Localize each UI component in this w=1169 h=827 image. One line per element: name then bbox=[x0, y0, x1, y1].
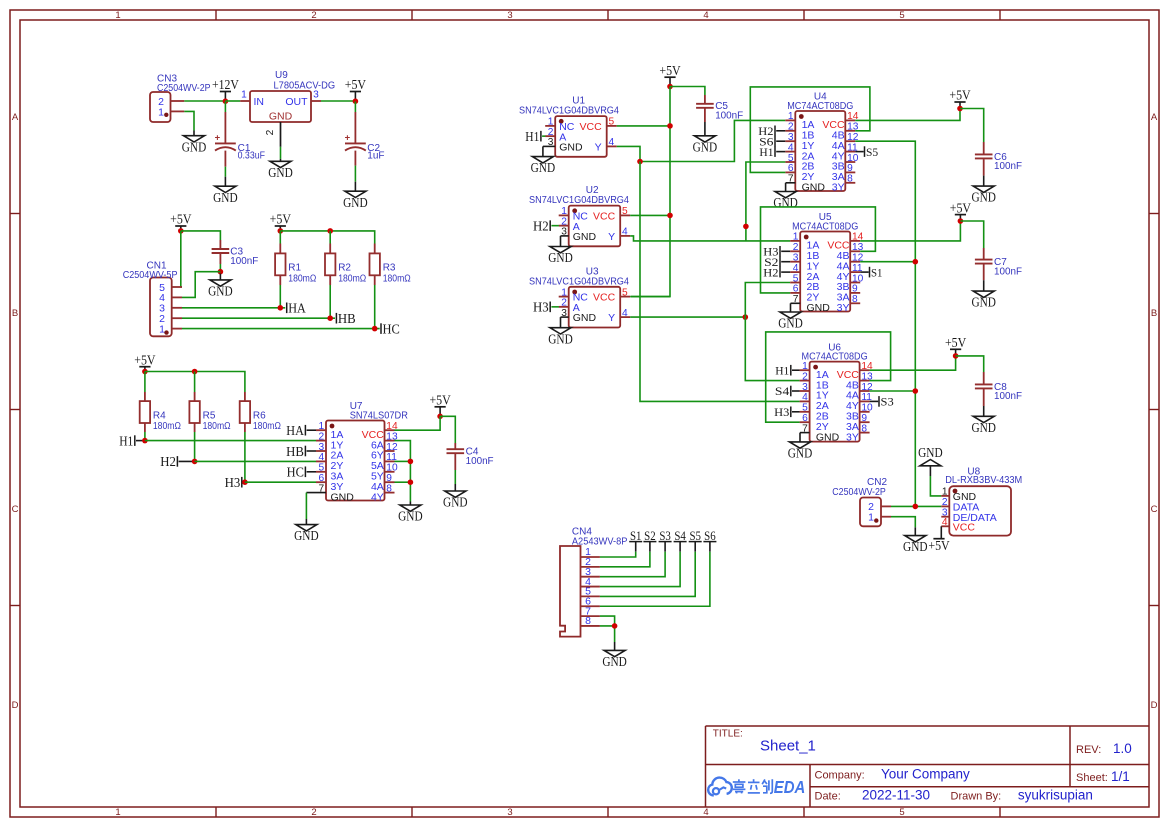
svg-text:10: 10 bbox=[861, 403, 873, 414]
wire C2 to ground bbox=[354, 166, 356, 182]
svg-text:+5V: +5V bbox=[949, 88, 971, 103]
svg-text:GND: GND bbox=[559, 142, 583, 154]
wire U2 VCC bbox=[630, 214, 670, 216]
S1 lead (U5) bbox=[860, 271, 869, 273]
svg-text:1: 1 bbox=[115, 10, 120, 21]
svg-text:180mΩ: 180mΩ bbox=[253, 421, 281, 432]
junction CN4 ground bbox=[612, 623, 618, 629]
ground (U7 outputs) bbox=[398, 502, 423, 524]
svg-text:S1: S1 bbox=[871, 265, 883, 279]
title block bbox=[706, 726, 1150, 807]
U2 pin3 to ground bbox=[561, 235, 569, 237]
svg-text:1uF: 1uF bbox=[367, 151, 384, 162]
svg-text:GND: GND bbox=[182, 139, 207, 154]
power +5V (U6/C8) bbox=[945, 335, 967, 356]
ground (U2) bbox=[548, 247, 573, 266]
svg-text:A: A bbox=[1151, 112, 1158, 123]
wire U2.Y to U5.1 bbox=[630, 236, 790, 241]
svg-text:5: 5 bbox=[788, 153, 794, 164]
wire C4 to ground bbox=[454, 470, 456, 484]
svg-text:GND: GND bbox=[548, 331, 573, 346]
svg-text:GND: GND bbox=[573, 312, 597, 324]
wire +12V to C1 bbox=[224, 102, 226, 113]
svg-text:EDA: EDA bbox=[774, 777, 806, 797]
svg-text:TITLE:: TITLE: bbox=[713, 729, 743, 740]
svg-text:GND: GND bbox=[208, 284, 233, 299]
wire CN3 pin1 to ground bbox=[184, 111, 194, 130]
wire +5V to C4 bbox=[440, 416, 455, 443]
svg-text:R6: R6 bbox=[253, 410, 266, 421]
junction +5V U7 node bbox=[437, 414, 443, 420]
power +5V (U8) bbox=[928, 538, 950, 553]
svg-text:S5: S5 bbox=[866, 145, 878, 159]
svg-text:1: 1 bbox=[793, 232, 799, 243]
junction +5V C8 node bbox=[953, 353, 959, 359]
wire CN4.1 to S1 bbox=[600, 552, 636, 557]
svg-text:1/1: 1/1 bbox=[1111, 769, 1130, 784]
junction +12V node bbox=[223, 98, 229, 104]
power +5V (R1-R3 rail) bbox=[270, 212, 292, 231]
svg-text:GND: GND bbox=[269, 111, 293, 123]
power +5V (U7/C4) bbox=[429, 393, 451, 417]
svg-text:H1: H1 bbox=[119, 433, 133, 448]
svg-text:H2: H2 bbox=[763, 265, 778, 279]
svg-text:100nF: 100nF bbox=[466, 456, 494, 467]
node S1 (CN4) bbox=[629, 528, 642, 552]
svg-text:HA: HA bbox=[288, 301, 306, 316]
U4 pin7 to ground bbox=[786, 182, 796, 184]
wire R5 to H2 bbox=[194, 432, 196, 461]
svg-text:9: 9 bbox=[847, 163, 853, 174]
junction rail at R2 bbox=[327, 228, 333, 234]
capacitor C1 bbox=[215, 132, 265, 161]
wire U9 GND pin bbox=[280, 147, 282, 159]
svg-text:2: 2 bbox=[802, 371, 808, 382]
wire U1.Y down to U6 pin4 bbox=[640, 162, 800, 402]
svg-text:GND: GND bbox=[971, 190, 996, 205]
wire U7 pin9 bbox=[395, 481, 411, 483]
svg-text:MC74ACT08DG: MC74ACT08DG bbox=[802, 352, 868, 363]
node H2 bbox=[160, 454, 177, 469]
wire CN2 pin2 to U8 DATA bbox=[891, 505, 941, 507]
resistor R1 bbox=[275, 244, 317, 286]
svg-text:GND: GND bbox=[573, 231, 597, 243]
power +5V (CN1) bbox=[170, 212, 192, 231]
svg-text:HC: HC bbox=[287, 465, 304, 480]
node HC (U7) bbox=[287, 465, 306, 480]
svg-text:R2: R2 bbox=[338, 263, 351, 274]
wire CN4.2 to S2 bbox=[600, 552, 650, 567]
svg-text:HC: HC bbox=[383, 321, 400, 336]
svg-text:H3: H3 bbox=[533, 300, 549, 315]
svg-text:5: 5 bbox=[802, 403, 808, 414]
H2 lead bbox=[179, 460, 195, 462]
resistor R4 bbox=[140, 392, 182, 432]
svg-text:GND: GND bbox=[268, 165, 293, 180]
H1 lead bbox=[136, 440, 145, 442]
svg-text:10: 10 bbox=[386, 463, 398, 474]
IC U2 SN74LVC1G04DBVRG4 bbox=[529, 185, 630, 246]
svg-text:8: 8 bbox=[852, 294, 858, 305]
junction rail at R5 bbox=[192, 369, 198, 375]
svg-text:+5V: +5V bbox=[429, 393, 451, 408]
svg-text:1: 1 bbox=[158, 106, 164, 118]
wire CN4 pin8 bbox=[600, 626, 615, 642]
svg-text:3: 3 bbox=[319, 442, 325, 453]
svg-text:SN74LS07DR: SN74LS07DR bbox=[350, 411, 408, 422]
svg-text:4Y: 4Y bbox=[371, 491, 384, 503]
wire +5V to C3 bbox=[181, 231, 221, 240]
node HA (U7) bbox=[286, 423, 305, 438]
svg-text:+5V: +5V bbox=[270, 212, 292, 227]
svg-text:GND: GND bbox=[213, 190, 238, 205]
svg-text:5: 5 bbox=[622, 287, 628, 298]
svg-text:C: C bbox=[12, 504, 19, 515]
node S4 (U6) bbox=[775, 384, 791, 398]
svg-text:C2504WV-2P: C2504WV-2P bbox=[832, 487, 886, 498]
wire H2 lead (U2) bbox=[551, 225, 559, 227]
junction U7 pin9 bbox=[408, 479, 414, 485]
H3 lead bbox=[243, 481, 245, 483]
svg-text:GND: GND bbox=[773, 195, 798, 210]
H1 lead (U6) bbox=[792, 369, 800, 371]
junction U2 VCC bbox=[667, 213, 673, 219]
svg-text:A: A bbox=[12, 112, 19, 123]
svg-text:R3: R3 bbox=[383, 263, 396, 274]
node H2 (U4) bbox=[758, 124, 775, 138]
svg-text:2: 2 bbox=[311, 807, 316, 818]
resistor R2 bbox=[325, 244, 367, 286]
wire CN1 pin2 to HB bbox=[182, 317, 335, 319]
junction U3.Y bbox=[743, 314, 749, 320]
ground (U3) bbox=[548, 328, 573, 347]
wire R1 to HA bbox=[279, 285, 281, 308]
junction +5V C6 node bbox=[957, 106, 963, 112]
S5 lead (U4) bbox=[855, 151, 863, 153]
wire DATA vertical bbox=[855, 141, 915, 506]
node H2 (U5) bbox=[763, 265, 780, 279]
svg-text:100nF: 100nF bbox=[994, 266, 1022, 277]
svg-text:3Y: 3Y bbox=[846, 431, 859, 443]
node S3 (U6) bbox=[879, 395, 894, 409]
wire H3 lead (U3) bbox=[551, 306, 559, 308]
wire +5V rail to R3 bbox=[280, 231, 374, 244]
svg-text:DL-RXB3BV-433M: DL-RXB3BV-433M bbox=[945, 475, 1022, 486]
node H1 (U1) bbox=[525, 129, 541, 144]
wire CN4.4 to S4 bbox=[600, 552, 680, 587]
svg-text:A2543WV-8P: A2543WV-8P bbox=[572, 536, 628, 547]
node S1 (U5) bbox=[870, 265, 883, 279]
junction HC bbox=[372, 326, 378, 332]
ground (C8) bbox=[971, 406, 996, 435]
svg-text:2: 2 bbox=[265, 129, 276, 135]
ground (U8 pin1, points up) bbox=[918, 445, 943, 466]
node H3 (U5) bbox=[763, 245, 780, 259]
svg-text:3: 3 bbox=[793, 253, 799, 264]
H1 lead (U4) bbox=[776, 151, 785, 153]
svg-text:GND: GND bbox=[816, 431, 840, 443]
wire CN4 pin7 bbox=[600, 616, 615, 626]
svg-text:10: 10 bbox=[852, 273, 864, 284]
svg-text:Sheet_1: Sheet_1 bbox=[760, 738, 816, 755]
svg-text:3Y: 3Y bbox=[837, 302, 850, 314]
svg-text:VCC: VCC bbox=[580, 121, 603, 133]
svg-text:4: 4 bbox=[319, 452, 325, 463]
wire U1 VCC bbox=[617, 125, 670, 127]
svg-text:1: 1 bbox=[115, 807, 120, 818]
svg-text:R5: R5 bbox=[203, 410, 216, 421]
ground (CN2) bbox=[903, 527, 928, 554]
svg-text:4: 4 bbox=[942, 517, 948, 528]
svg-text:GND: GND bbox=[788, 446, 813, 461]
wire +5V to C2 bbox=[354, 102, 356, 113]
svg-text:Y: Y bbox=[608, 312, 615, 324]
ground (U9) bbox=[268, 159, 293, 180]
node S2 (CN4) bbox=[643, 528, 656, 552]
svg-text:U9: U9 bbox=[275, 70, 288, 81]
ground (C3) bbox=[208, 274, 233, 299]
wire +5V to C5 bbox=[670, 87, 705, 96]
node H2 (U2) bbox=[533, 218, 550, 233]
svg-text:H1: H1 bbox=[525, 129, 539, 144]
wire U6 2Y to 4B loop bbox=[766, 332, 891, 422]
svg-text:SN74LVC1G04DBVRG4: SN74LVC1G04DBVRG4 bbox=[529, 195, 629, 206]
svg-text:GND: GND bbox=[693, 139, 718, 154]
ground (C4) bbox=[443, 484, 468, 510]
wire +5V to C6 bbox=[960, 109, 984, 143]
wire U5 2Y to 4B loop bbox=[761, 207, 876, 293]
node HB (CN1) bbox=[336, 311, 355, 326]
svg-text:5: 5 bbox=[793, 273, 799, 284]
U7 pin7 to ground bbox=[306, 492, 326, 494]
svg-text:2: 2 bbox=[788, 122, 794, 133]
wire U7 pins 13-11-9 bbox=[395, 441, 411, 502]
svg-text:9: 9 bbox=[386, 473, 392, 484]
power +12V bbox=[212, 77, 239, 101]
svg-text:180mΩ: 180mΩ bbox=[338, 273, 366, 284]
wire H1 lead (U1) bbox=[542, 135, 545, 137]
ground (C1) bbox=[213, 177, 238, 205]
svg-text:Your Company: Your Company bbox=[881, 766, 970, 781]
power +5V (U9 out) bbox=[345, 77, 367, 101]
svg-text:1: 1 bbox=[802, 361, 808, 372]
svg-text:C2504WV-2P: C2504WV-2P bbox=[157, 83, 211, 94]
svg-text:VCC: VCC bbox=[953, 521, 976, 533]
svg-text:5: 5 bbox=[899, 10, 904, 21]
svg-text:6: 6 bbox=[788, 163, 794, 174]
junction +5V C7 node bbox=[958, 218, 964, 224]
svg-text:R1: R1 bbox=[288, 263, 301, 274]
node H3 bbox=[225, 475, 242, 490]
wire +5V rail to R6 bbox=[145, 372, 245, 393]
capacitor C8 bbox=[975, 382, 1022, 402]
svg-text:3: 3 bbox=[802, 382, 808, 393]
H2 lead (U4) bbox=[776, 130, 785, 132]
junction H3 bbox=[242, 479, 248, 485]
svg-text:12: 12 bbox=[386, 442, 398, 453]
svg-text:100nF: 100nF bbox=[994, 161, 1022, 172]
ground (U7) bbox=[294, 519, 319, 543]
junction +5V rail at R1 bbox=[278, 228, 284, 234]
connector CN3 C2504WV-2P bbox=[150, 74, 211, 123]
svg-text:GND: GND bbox=[398, 509, 423, 524]
junction U1 VCC bbox=[667, 123, 673, 129]
wire CN4.6 to S6 bbox=[600, 552, 710, 607]
node S3 (CN4) bbox=[659, 528, 672, 552]
capacitor C7 bbox=[975, 257, 1022, 277]
svg-text:3: 3 bbox=[507, 10, 512, 21]
svg-text:+: + bbox=[345, 132, 351, 143]
wire U8 pin4 to +5V bbox=[940, 526, 942, 538]
svg-text:180mΩ: 180mΩ bbox=[203, 421, 231, 432]
HB lead bbox=[307, 450, 316, 452]
svg-text:180mΩ: 180mΩ bbox=[383, 273, 411, 284]
U3 pin3 to ground bbox=[561, 316, 569, 318]
svg-text:GND: GND bbox=[531, 160, 556, 175]
IC U1 SN74LVC1G04DBVRG4 bbox=[519, 96, 619, 157]
wire U5.4A to DATA bbox=[860, 261, 915, 263]
svg-text:1: 1 bbox=[159, 323, 165, 335]
wire rail to R2 bbox=[329, 231, 331, 244]
wire R4 to H1 bbox=[144, 432, 146, 441]
IC U8 DL-RXB3BV-433M bbox=[941, 467, 1022, 536]
IC U6 MC74ACT08DG bbox=[800, 342, 873, 443]
wire CN1 pin1 to HC bbox=[182, 328, 380, 330]
svg-text:3Y: 3Y bbox=[832, 182, 845, 194]
svg-text:0.33uF: 0.33uF bbox=[238, 151, 265, 162]
svg-text:OUT: OUT bbox=[285, 96, 308, 108]
svg-text:GND: GND bbox=[331, 491, 355, 503]
junction H2 bbox=[192, 459, 198, 465]
resistor R6 bbox=[240, 392, 282, 432]
wire CN4.3 to S3 bbox=[600, 552, 665, 577]
svg-text:HB: HB bbox=[286, 444, 304, 459]
svg-text:Company:: Company: bbox=[815, 769, 865, 781]
svg-text:C2504WV-5P: C2504WV-5P bbox=[123, 270, 178, 281]
junction DATA at U6 bbox=[913, 388, 919, 394]
svg-text:1: 1 bbox=[868, 512, 874, 524]
svg-text:Drawn By:: Drawn By: bbox=[951, 791, 1002, 803]
svg-text:1.0: 1.0 bbox=[1113, 741, 1132, 756]
wire rail to R4 bbox=[144, 372, 146, 393]
svg-text:HB: HB bbox=[338, 311, 356, 326]
HC lead bbox=[307, 471, 316, 473]
svg-text:5: 5 bbox=[609, 117, 615, 128]
svg-text:180mΩ: 180mΩ bbox=[153, 421, 181, 432]
svg-text:GND: GND bbox=[971, 420, 996, 435]
svg-text:8: 8 bbox=[386, 483, 392, 494]
node S5 (CN4) bbox=[689, 528, 702, 552]
H3 lead (U6) bbox=[792, 411, 800, 413]
svg-text:6: 6 bbox=[319, 473, 325, 484]
svg-text:9: 9 bbox=[861, 413, 867, 424]
junction U7 pin11 bbox=[408, 459, 414, 465]
svg-text:VCC: VCC bbox=[593, 292, 616, 304]
wire U3 VCC bbox=[630, 296, 670, 298]
node S2 (U5) bbox=[764, 255, 780, 269]
svg-text:5: 5 bbox=[622, 206, 628, 217]
svg-text:4: 4 bbox=[622, 227, 628, 238]
wire U3.Y up to U5 pin5 bbox=[745, 283, 790, 318]
wire to CN1 pin4 bbox=[182, 272, 220, 298]
wire U8 pin1 bbox=[930, 476, 941, 496]
svg-text:H1: H1 bbox=[775, 363, 789, 377]
svg-text:3: 3 bbox=[313, 89, 319, 100]
svg-text:9: 9 bbox=[852, 284, 858, 295]
ground (U1) bbox=[531, 157, 556, 176]
wire U1.Y to U4.1 bbox=[617, 120, 786, 161]
svg-text:H1: H1 bbox=[759, 145, 773, 159]
svg-text:D: D bbox=[12, 700, 19, 711]
wire U3.Y down to U6 pin2 bbox=[745, 317, 799, 381]
svg-text:H2: H2 bbox=[533, 218, 549, 233]
svg-text:GND: GND bbox=[602, 654, 627, 669]
svg-text:4: 4 bbox=[622, 308, 628, 319]
node HB (U7) bbox=[286, 444, 305, 459]
svg-text:2022-11-30: 2022-11-30 bbox=[862, 788, 930, 803]
wire U6 VCC bbox=[870, 356, 956, 370]
svg-text:Y: Y bbox=[595, 142, 602, 154]
wire U4 2Y to 4B loop bbox=[750, 87, 870, 172]
node HA (CN1) bbox=[287, 301, 306, 316]
svg-text:MC74ACT08DG: MC74ACT08DG bbox=[792, 222, 858, 233]
junction HA bbox=[278, 305, 284, 311]
svg-text:+5V: +5V bbox=[345, 77, 367, 92]
regulator U9 L7805ACV-DG bbox=[240, 70, 335, 147]
svg-text:C: C bbox=[1151, 504, 1158, 515]
svg-text:1: 1 bbox=[942, 487, 948, 498]
wire R3 to HC bbox=[374, 285, 376, 329]
capacitor C6 bbox=[975, 152, 1022, 172]
junction C3-GND node bbox=[218, 269, 224, 275]
svg-text:L7805ACV-DG: L7805ACV-DG bbox=[274, 81, 336, 92]
wire +12V to U9.1 bbox=[225, 100, 240, 102]
svg-text:GND: GND bbox=[918, 445, 943, 460]
svg-text:GND: GND bbox=[443, 495, 468, 510]
junction +5V CN1 node bbox=[178, 228, 184, 234]
svg-text:6: 6 bbox=[802, 413, 808, 424]
svg-text:100nF: 100nF bbox=[230, 256, 258, 267]
junction +5V rail at R4 bbox=[142, 369, 148, 375]
wire R2 to HB bbox=[329, 285, 331, 318]
wire H2 to U7 pin4 bbox=[195, 460, 316, 462]
junction U1.Y branch bbox=[637, 159, 643, 165]
wire U4 VCC bbox=[855, 109, 960, 121]
wire U7 pin11 bbox=[395, 460, 411, 462]
svg-text:5: 5 bbox=[319, 463, 325, 474]
junction +5V node at C2 bbox=[353, 98, 359, 104]
svg-text:4: 4 bbox=[793, 263, 799, 274]
ground (U6) bbox=[788, 442, 813, 461]
ground (U5) bbox=[778, 312, 803, 331]
svg-text:syukrisupian: syukrisupian bbox=[1018, 788, 1093, 803]
node H1 bbox=[119, 433, 135, 448]
svg-text:5: 5 bbox=[899, 807, 904, 818]
svg-text:HA: HA bbox=[286, 423, 304, 438]
wire U7 gnd bbox=[305, 493, 307, 519]
svg-text:MC74ACT08DG: MC74ACT08DG bbox=[787, 101, 853, 112]
resistor R3 bbox=[370, 244, 412, 286]
svg-text:4: 4 bbox=[788, 142, 794, 153]
svg-text:SN74LVC1G04DBVRG4: SN74LVC1G04DBVRG4 bbox=[519, 106, 619, 117]
svg-text:H3: H3 bbox=[774, 405, 789, 419]
wire +5V to U7.14 bbox=[394, 416, 440, 430]
svg-text:GND: GND bbox=[802, 182, 826, 194]
svg-text:D: D bbox=[1151, 700, 1158, 711]
svg-text:SN74LVC1G04DBVRG4: SN74LVC1G04DBVRG4 bbox=[529, 276, 629, 287]
wire U8 pin1 stem bbox=[929, 466, 931, 476]
svg-text:H3: H3 bbox=[225, 475, 241, 490]
